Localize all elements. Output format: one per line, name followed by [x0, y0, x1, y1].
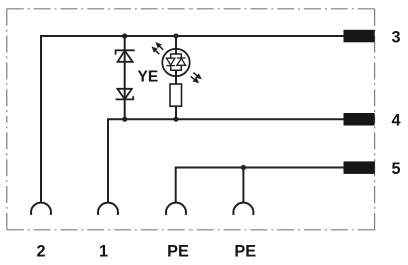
- zener diode V1 (top): [116, 50, 135, 62]
- LED left diode (down): [166, 58, 175, 65]
- wire net 3 top horizontal: [41, 36, 345, 203]
- junction node net4/zener: [122, 117, 127, 122]
- resistor R1: [170, 84, 182, 106]
- svg-text:2: 2: [36, 243, 45, 261]
- LED light arrows upper-left: [153, 43, 163, 54]
- LED right diode (up): [177, 58, 186, 65]
- wire net 4 horizontal: [108, 119, 345, 202]
- pin 3 terminal: [344, 30, 375, 43]
- svg-text:3: 3: [391, 28, 400, 46]
- svg-text:5: 5: [391, 160, 400, 178]
- socket contact 2: [31, 203, 51, 215]
- socket contact PE1: [166, 203, 186, 215]
- socket contact PE2: [233, 203, 253, 215]
- socket contact 1: [98, 203, 118, 215]
- svg-text:1: 1: [99, 243, 108, 261]
- zener diode V2 (bottom): [116, 89, 134, 100]
- enclosure dashed border: [7, 9, 375, 230]
- wire net 5 horizontal: [176, 168, 345, 203]
- junction node net4/LED: [173, 117, 178, 122]
- svg-text:4: 4: [391, 112, 400, 130]
- pin 5 terminal: [344, 161, 375, 174]
- wire LED branch upper: [175, 36, 177, 54]
- LED U1 circle: [162, 49, 189, 76]
- junction node net5/PE2: [241, 165, 246, 170]
- wire LED branch lower: [175, 70, 177, 119]
- wire PE2 drop: [242, 168, 244, 203]
- junction node net3/zener: [122, 33, 127, 38]
- wire zener branch: [124, 36, 126, 119]
- svg-text:PE: PE: [167, 243, 189, 261]
- LED light arrows lower-right: [191, 73, 201, 82]
- junction node net3/LED: [173, 33, 178, 38]
- svg-text:PE: PE: [234, 243, 256, 261]
- LED internal bridge frame: [171, 54, 182, 70]
- svg-text:YE: YE: [138, 68, 159, 85]
- pin 4 terminal: [344, 113, 375, 126]
